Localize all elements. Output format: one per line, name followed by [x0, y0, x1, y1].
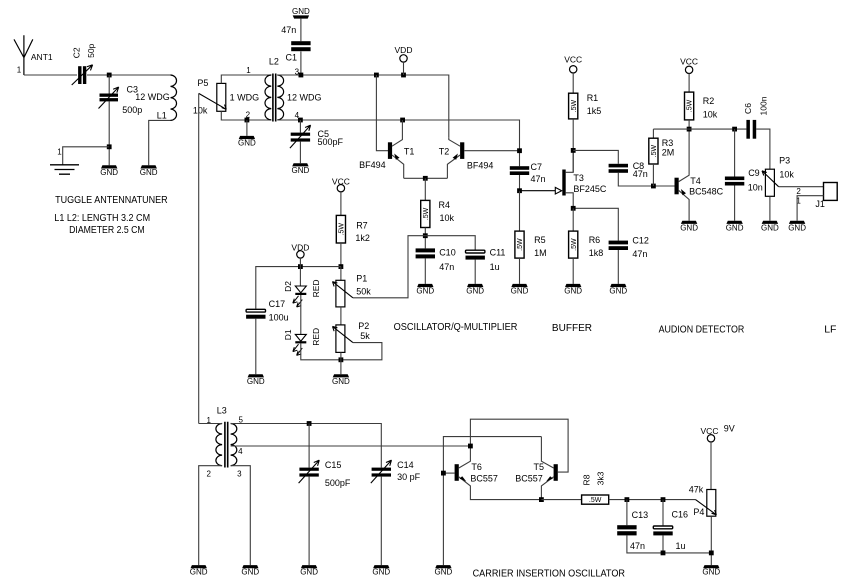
- svg-text:VCC: VCC: [701, 426, 719, 436]
- wire C17 to ground: [255, 319, 257, 375]
- capacitor C12: [609, 241, 628, 250]
- svg-text:.5W: .5W: [339, 223, 346, 236]
- resistor R1: [569, 93, 578, 119]
- transistor T5 PNP: [541, 437, 557, 500]
- wire P3 wiper to J1: [779, 186, 824, 188]
- wire P5 bottom to L2 pin 2: [221, 111, 271, 120]
- junction: [401, 73, 406, 78]
- wire L3 pin5 rail: [231, 424, 382, 468]
- resistor R4: [421, 200, 430, 227]
- wire L3 pin1: [199, 423, 222, 425]
- potentiometer P3: [765, 169, 774, 196]
- svg-text:10n: 10n: [748, 183, 763, 193]
- svg-text:L1 L2: LENGTH 3.2 CM: L1 L2: LENGTH 3.2 CM: [54, 212, 150, 224]
- junction: [661, 497, 666, 502]
- resistor R7: [336, 215, 345, 243]
- ground (L3 pin3): [241, 565, 259, 577]
- wire second rail (L2 pin4): [277, 120, 519, 166]
- wire pin2 to ground: [246, 120, 248, 136]
- junction: [517, 188, 522, 193]
- svg-text:1: 1: [57, 148, 62, 157]
- svg-text:C7: C7: [531, 162, 543, 172]
- ground (T4 emitter): [680, 221, 698, 233]
- svg-text:P1: P1: [356, 274, 367, 284]
- junction: [661, 551, 666, 556]
- svg-text:VCC: VCC: [680, 57, 698, 67]
- ground (L2 pin 2): [238, 136, 256, 148]
- transformer L2: [265, 74, 284, 122]
- wire P5 wiper rail down to L3: [198, 93, 200, 423]
- svg-text:P5: P5: [197, 78, 208, 88]
- junction: [441, 471, 446, 476]
- svg-text:47k: 47k: [689, 485, 704, 495]
- svg-text:GND: GND: [190, 568, 208, 577]
- wire L3 pin2 to ground: [199, 466, 222, 565]
- capacitor C8: [609, 164, 628, 173]
- svg-text:GND: GND: [300, 568, 318, 577]
- connector J1: [824, 183, 838, 201]
- capacitor C10: [416, 248, 435, 258]
- svg-text:P4: P4: [693, 507, 704, 517]
- svg-text:L2: L2: [269, 57, 279, 67]
- antenna ANT1: [14, 35, 53, 75]
- wire P2 wiper loop: [341, 343, 382, 360]
- capacitor C15: [308, 424, 310, 468]
- capacitor C3: [108, 75, 110, 94]
- svg-text:GND: GND: [292, 166, 310, 175]
- junction: [709, 551, 714, 556]
- wire VCC to R1: [572, 73, 574, 93]
- transistor T6 PNP: [455, 446, 542, 500]
- junction: [571, 206, 576, 211]
- svg-text:1k5: 1k5: [587, 106, 602, 116]
- wire junction to R4: [424, 178, 426, 200]
- capacitor C1: [291, 41, 310, 51]
- svg-text:4: 4: [238, 447, 243, 456]
- wire junction to ground: [340, 352, 342, 374]
- wire C1 to pin3 rail: [300, 51, 302, 75]
- power VDD: [395, 45, 413, 62]
- svg-text:2M: 2M: [662, 148, 675, 158]
- svg-text:VCC: VCC: [332, 177, 350, 187]
- wire VCC to R2: [688, 74, 690, 93]
- svg-text:GND: GND: [680, 223, 698, 232]
- wire gate node to R5: [519, 191, 521, 231]
- wire T1 base drop: [376, 75, 388, 151]
- wire L1 to ground: [149, 120, 171, 165]
- svg-text:RED: RED: [311, 328, 321, 346]
- capacitor C2: [78, 66, 86, 84]
- capacitor C6: [746, 120, 756, 139]
- svg-text:9V: 9V: [724, 423, 735, 433]
- svg-text:VDD: VDD: [395, 45, 413, 55]
- wire C13 to bottom rail: [627, 535, 711, 553]
- transistor T2: [447, 138, 464, 179]
- svg-text:GND: GND: [292, 7, 310, 16]
- svg-text:10k: 10k: [703, 110, 718, 120]
- wire T2 base to C7 node: [464, 150, 519, 152]
- power VCC 2: [680, 57, 698, 74]
- wire C2 to L1: [87, 74, 171, 76]
- svg-text:12 WDG: 12 WDG: [135, 92, 170, 102]
- svg-text:GND: GND: [511, 287, 529, 296]
- svg-text:C2: C2: [72, 47, 82, 58]
- transistor T3 JFET: [562, 150, 573, 208]
- svg-text:R3: R3: [662, 138, 674, 148]
- svg-text:C15: C15: [325, 460, 342, 470]
- wiper arrow P1: [333, 282, 353, 298]
- svg-text:GND: GND: [238, 139, 256, 148]
- wire source to R6: [572, 208, 574, 231]
- svg-text:47n: 47n: [281, 25, 296, 35]
- svg-text:AUDION DETECTOR: AUDION DETECTOR: [659, 323, 745, 335]
- wire VCC rail to C6 and P3: [653, 128, 746, 130]
- svg-text:.5W: .5W: [517, 238, 524, 251]
- svg-text:BF494: BF494: [359, 160, 386, 170]
- wire VDD rail: [256, 267, 341, 309]
- svg-text:GND: GND: [435, 568, 453, 577]
- power VCC 9V: [701, 426, 719, 442]
- svg-text:GND: GND: [564, 287, 582, 296]
- wire C15 to ground: [308, 477, 310, 565]
- diode D1 LED: [293, 334, 307, 355]
- svg-text:.5W: .5W: [651, 144, 658, 157]
- power VCC: [564, 55, 582, 74]
- resistor R3: [649, 138, 658, 164]
- wire L3 pin3 to ground: [231, 466, 251, 565]
- potentiometer P2: [336, 325, 345, 353]
- ground (J1): [788, 221, 806, 233]
- svg-text:1: 1: [17, 66, 22, 75]
- svg-text:30 pF: 30 pF: [397, 472, 421, 482]
- svg-text:2: 2: [246, 111, 251, 120]
- svg-text:50k: 50k: [356, 286, 371, 296]
- svg-text:T6: T6: [471, 462, 482, 472]
- capacitor C5: [299, 120, 301, 133]
- wire P3 bottom to ground: [769, 196, 771, 220]
- wire gate to T3 with arrow: [520, 187, 562, 194]
- junction: [651, 184, 656, 189]
- svg-text:C1: C1: [286, 52, 298, 62]
- ground (C3): [100, 165, 118, 177]
- wire D1 to bottom junction: [301, 343, 341, 359]
- junction: [571, 148, 576, 153]
- svg-text:10k: 10k: [779, 170, 794, 180]
- resistor R6: [569, 231, 578, 258]
- svg-text:GND: GND: [609, 287, 627, 296]
- svg-text:D1: D1: [283, 329, 293, 340]
- svg-text:1M: 1M: [534, 248, 547, 258]
- wire R5 to ground: [519, 258, 521, 284]
- svg-text:T3: T3: [573, 173, 584, 183]
- svg-text:GND: GND: [100, 168, 118, 177]
- transformer L3: [216, 422, 237, 468]
- ground (C17): [247, 374, 265, 386]
- svg-text:1u: 1u: [490, 262, 500, 272]
- svg-text:C16: C16: [672, 510, 689, 520]
- wire C14 to ground: [380, 477, 382, 565]
- potentiometer P4: [707, 490, 716, 517]
- svg-text:GND: GND: [241, 568, 259, 577]
- power VDD 2: [291, 243, 309, 258]
- ground (P3): [761, 221, 779, 233]
- wiper arrow P5: [199, 93, 227, 109]
- svg-text:100n: 100n: [758, 96, 768, 115]
- wire R1 to drain node: [572, 119, 574, 172]
- svg-text:GND: GND: [466, 287, 484, 296]
- svg-text:L1: L1: [157, 111, 167, 121]
- svg-text:D2: D2: [283, 281, 293, 292]
- svg-text:OSCILLATOR/Q-MULTIPLIER: OSCILLATOR/Q-MULTIPLIER: [394, 321, 518, 333]
- capacitor C16: [662, 500, 664, 526]
- junction: [245, 118, 250, 123]
- svg-text:1k8: 1k8: [589, 248, 604, 258]
- svg-text:C17: C17: [269, 299, 286, 309]
- svg-text:500pF: 500pF: [325, 478, 351, 488]
- svg-text:1k2: 1k2: [355, 233, 370, 243]
- capacitor C13: [626, 500, 628, 526]
- wire C12 to ground: [617, 250, 619, 284]
- wire C7 to gate node: [519, 175, 521, 191]
- wire R8 to P4 wiper: [609, 499, 696, 501]
- wire C10 to ground: [424, 258, 426, 284]
- ground (P2/D1): [332, 374, 350, 386]
- wire R6 to ground: [572, 258, 574, 284]
- svg-text:DIAMETER 2.5 CM: DIAMETER 2.5 CM: [69, 224, 145, 236]
- junction: [107, 144, 112, 149]
- wire C5 to ground: [299, 142, 301, 164]
- svg-text:.5W: .5W: [687, 99, 694, 112]
- junction: [423, 176, 428, 181]
- capacitor C7: [510, 166, 529, 175]
- svg-text:R1: R1: [587, 93, 599, 103]
- wiper arrow P3: [762, 171, 779, 187]
- wire to C11: [425, 236, 475, 250]
- junction: [517, 148, 522, 153]
- wire VDD to rail: [299, 258, 301, 267]
- ground (P4): [702, 565, 720, 577]
- svg-text:CARRIER INSERTION OSCILLATOR: CARRIER INSERTION OSCILLATOR: [473, 567, 626, 579]
- wire ground to C1: [300, 19, 302, 42]
- svg-text:R2: R2: [703, 96, 715, 106]
- junction: [339, 264, 344, 269]
- svg-text:GND: GND: [761, 223, 779, 232]
- junction: [687, 127, 692, 132]
- wire to earth ground: [63, 147, 109, 165]
- svg-text:500pF: 500pF: [318, 137, 344, 147]
- wire T6 base: [443, 472, 454, 474]
- potentiometer P5: [217, 83, 226, 111]
- ground (C11): [466, 284, 484, 296]
- resistor R5: [515, 231, 524, 258]
- wire VCC to R7: [340, 192, 342, 216]
- junction: [400, 118, 405, 123]
- svg-text:ANT1: ANT1: [31, 52, 53, 62]
- svg-text:47n: 47n: [531, 174, 546, 184]
- ground (L1): [140, 165, 158, 177]
- junction: [307, 421, 312, 426]
- ground (C10): [416, 284, 434, 296]
- wire J1 pin1 to ground: [797, 196, 823, 221]
- svg-text:R7: R7: [356, 220, 368, 230]
- svg-text:T4: T4: [690, 176, 701, 186]
- wire antenna to C2: [24, 74, 77, 76]
- wire top rail (L2 pin3 / VDD / T2 collector): [277, 75, 449, 138]
- junction: [298, 118, 303, 123]
- svg-text:T1: T1: [404, 146, 415, 156]
- junction: [732, 127, 737, 132]
- capacitor C14: [372, 468, 391, 477]
- svg-text:BC557: BC557: [515, 473, 543, 483]
- ground (C12): [609, 284, 627, 296]
- ground (R6): [564, 284, 582, 296]
- svg-text:.5W: .5W: [589, 497, 602, 504]
- svg-text:.5W: .5W: [571, 238, 578, 251]
- svg-text:47n: 47n: [632, 249, 647, 259]
- svg-text:.5W: .5W: [571, 99, 578, 112]
- capacitor C17: [246, 309, 265, 318]
- junction: [625, 497, 630, 502]
- svg-text:C6: C6: [743, 103, 753, 114]
- wiper arrow P4: [696, 500, 717, 515]
- power VCC 3: [332, 177, 350, 192]
- wiper arrow P2: [333, 326, 353, 342]
- svg-text:1u: 1u: [676, 541, 686, 551]
- svg-text:500p: 500p: [122, 105, 142, 115]
- resistor R3: [652, 129, 654, 138]
- svg-text:3: 3: [237, 469, 242, 478]
- svg-text:BC548C: BC548C: [689, 186, 724, 196]
- wire R4 to C10 junction: [424, 228, 426, 249]
- svg-text:10k: 10k: [440, 213, 455, 223]
- svg-text:BUFFER: BUFFER: [552, 322, 592, 334]
- svg-text:GND: GND: [372, 568, 390, 577]
- earth ground: [50, 165, 79, 174]
- svg-text:GND: GND: [726, 223, 744, 232]
- ground flipped (C1): [292, 7, 310, 18]
- wire VDD node to D2: [299, 267, 301, 286]
- capacitor C9: [734, 129, 736, 176]
- svg-text:VDD: VDD: [291, 243, 309, 253]
- wire R3 bottom to base node: [652, 164, 654, 186]
- svg-text:.5W: .5W: [423, 207, 430, 220]
- ground (C9): [726, 221, 744, 233]
- svg-text:TUGGLE ANTENNATUNER: TUGGLE ANTENNATUNER: [55, 194, 168, 206]
- junction: [299, 73, 304, 78]
- junction: [423, 233, 428, 238]
- svg-text:GND: GND: [140, 168, 158, 177]
- wire D2 to D1: [300, 295, 302, 334]
- svg-text:J1: J1: [815, 199, 825, 209]
- svg-text:C13: C13: [632, 510, 649, 520]
- svg-text:C9: C9: [748, 168, 760, 178]
- svg-text:47n: 47n: [630, 541, 645, 551]
- svg-text:5k: 5k: [360, 331, 370, 341]
- svg-text:VCC: VCC: [564, 55, 582, 65]
- potentiometer P1: [340, 267, 342, 281]
- svg-text:1 WDG: 1 WDG: [230, 92, 260, 102]
- wire C11 to ground: [474, 260, 476, 284]
- svg-text:50p: 50p: [86, 43, 96, 57]
- junction: [107, 73, 112, 78]
- svg-text:47n: 47n: [633, 169, 648, 179]
- ground (R5): [511, 284, 529, 296]
- junction: [298, 264, 303, 269]
- junction: [468, 444, 473, 449]
- svg-text:GND: GND: [702, 568, 720, 577]
- wire C9 to ground: [734, 186, 736, 221]
- wire C3 to earth junction: [108, 101, 110, 165]
- svg-text:T5: T5: [534, 462, 545, 472]
- ground (L3 pin2): [190, 565, 208, 577]
- svg-text:LF: LF: [824, 323, 836, 335]
- wire R2 to collector node: [688, 120, 690, 129]
- svg-text:R5: R5: [534, 235, 546, 245]
- inductor L1: [171, 75, 177, 120]
- capacitor C11: [466, 250, 485, 259]
- junction: [539, 497, 544, 502]
- transistor T1: [388, 120, 404, 178]
- wire cross coupling T6 base / T5 collector: [443, 437, 541, 565]
- wire C8 to T4 base node: [618, 173, 674, 186]
- svg-text:3k3: 3k3: [595, 471, 605, 485]
- svg-text:BC557: BC557: [470, 473, 498, 483]
- transistor T4: [675, 129, 690, 221]
- svg-text:1: 1: [246, 66, 251, 75]
- svg-text:12 WDG: 12 WDG: [287, 92, 322, 102]
- wire L3 pin4 to T6 collector node: [231, 445, 471, 447]
- wire P1 wiper to R4 node: [353, 236, 425, 298]
- wire VCC to P4: [710, 442, 712, 490]
- svg-text:10k: 10k: [193, 106, 208, 116]
- svg-text:BF494: BF494: [467, 161, 494, 171]
- wire VDD to rail: [403, 62, 405, 75]
- wire emitters to R4: [404, 177, 448, 179]
- ground (T6 base rail): [435, 565, 453, 577]
- wire P4 to bottom junction: [710, 516, 712, 565]
- svg-text:GND: GND: [332, 377, 350, 386]
- wire R7 to VDD rail: [340, 243, 342, 267]
- ground (C15): [300, 565, 318, 577]
- wire P1 bottom to P2 top: [340, 307, 342, 325]
- wire emitter rail to R8: [541, 499, 581, 501]
- svg-text:C11: C11: [490, 247, 506, 257]
- resistor R8: [582, 495, 609, 504]
- ground (C5): [292, 163, 310, 175]
- svg-text:C10: C10: [439, 247, 456, 257]
- svg-text:P2: P2: [358, 321, 369, 331]
- svg-text:R6: R6: [589, 235, 601, 245]
- svg-text:RED: RED: [311, 279, 321, 297]
- svg-text:T2: T2: [439, 146, 450, 156]
- svg-text:P3: P3: [779, 155, 790, 165]
- svg-text:BF245C: BF245C: [573, 184, 607, 194]
- svg-text:GND: GND: [247, 377, 265, 386]
- svg-text:L3: L3: [217, 406, 227, 416]
- diode D2 LED: [293, 286, 307, 307]
- junction: [339, 357, 344, 362]
- svg-text:5: 5: [238, 415, 243, 424]
- wire cross coupling T5 base: [470, 419, 568, 472]
- resistor R2: [685, 92, 694, 120]
- svg-text:C12: C12: [632, 235, 649, 245]
- svg-text:2: 2: [206, 469, 211, 478]
- wire P5 top to L2 pin 1: [221, 75, 271, 83]
- svg-text:R4: R4: [439, 200, 451, 210]
- svg-text:R8: R8: [581, 474, 591, 485]
- svg-text:47n: 47n: [439, 262, 454, 272]
- svg-text:GND: GND: [788, 223, 806, 232]
